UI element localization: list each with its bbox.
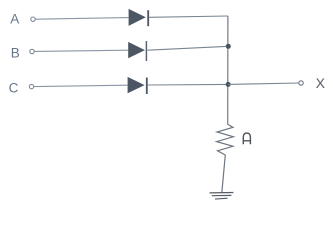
ground symbol [210, 193, 234, 200]
input terminal C [29, 84, 33, 88]
wire resistor to ground [222, 155, 226, 193]
junction dot B/bus [226, 44, 231, 49]
input label B [11, 46, 20, 61]
input terminal A [31, 17, 35, 21]
output label X [316, 75, 326, 91]
svg-text:B: B [11, 46, 20, 61]
vertical bus wire (node X) [227, 16, 229, 124]
svg-text:A: A [10, 12, 19, 27]
svg-text:X: X [316, 75, 326, 91]
svg-text:C: C [9, 81, 19, 96]
input label C [9, 81, 19, 96]
wire B input to diode D2 anode [34, 50, 128, 51]
diode D2 (input B) [128, 41, 146, 61]
wire bus junction to output terminal X [228, 83, 299, 84]
resistor R zigzag [217, 124, 234, 155]
diode D3 (input C) [128, 77, 147, 94]
diode D1 (input A) [129, 9, 149, 26]
wire D2 cathode to bus junction [147, 46, 228, 50]
input terminal B [30, 49, 34, 53]
wire D3 cathode to bus junction [148, 83, 228, 86]
wire C input to diode D3 anode [34, 85, 128, 86]
output terminal X [299, 81, 303, 85]
input label A [10, 12, 19, 27]
wire A input to diode D1 anode [36, 18, 129, 20]
wire D1 cathode to top corner of output bus [149, 16, 228, 17]
junction dot C/bus [226, 82, 231, 87]
resistor label R [243, 133, 250, 144]
